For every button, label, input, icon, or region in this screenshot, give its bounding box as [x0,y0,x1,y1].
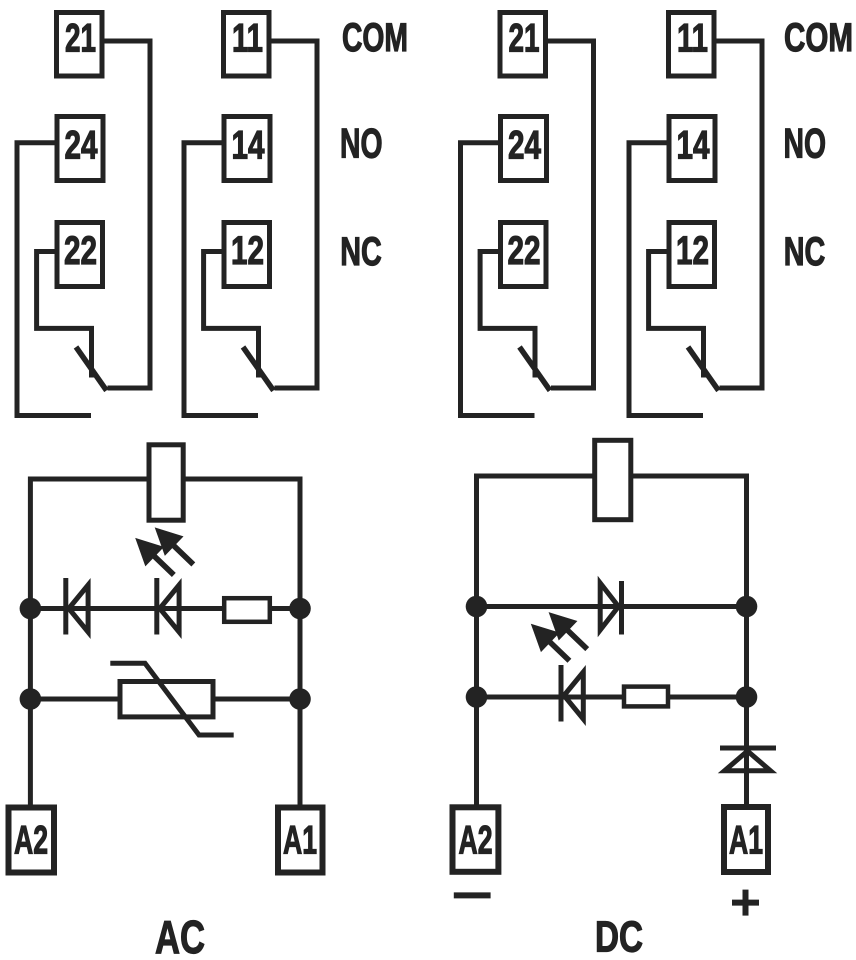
wire from 11 (COM) to switch blade [717,41,763,388]
terminal box 22 [501,223,547,287]
resistor R1 (AC) [224,598,270,622]
svg-text:21: 21 [509,16,540,60]
svg-text:A2: A2 [459,819,493,863]
wire from 12 (NC) to closed contact [204,252,259,378]
junction dot DC row1 right [736,596,758,618]
terminal box 14 [669,117,715,181]
svg-text:21: 21 [65,16,96,60]
junction dot AC row2 left [20,688,42,710]
diode D5 (DC reverse-polarity, pointing up) bar [720,746,776,751]
svg-text:14: 14 [232,124,266,168]
wire from 12 (NC) to closed contact [649,252,704,378]
switch blade (changeover contact) [520,347,551,391]
DC circuit outer wires (left vertical, top, right vertical) [477,476,747,807]
LED emission arrows (DC) [539,602,596,659]
wire row 1 (AC diode/LED/resistor branch) [30,606,300,611]
AC circuit outer wires (left vertical, top, right vertical) [30,479,300,807]
junction dot DC row2 right [736,686,758,708]
LED D4 (DC) [559,665,564,722]
relay coil (AC) [149,445,183,520]
wire from 24 (NO) to open contact [17,143,91,416]
varistor RV1 (AC) diagonal stroke [110,663,233,735]
svg-text:NO: NO [340,120,383,167]
terminal box 24 [501,117,547,181]
terminal box A1 (AC) [278,808,323,873]
svg-text:24: 24 [65,124,99,168]
diode D3 (DC, pointing right) [619,581,624,635]
wire from 14 (NO) to open contact [629,143,703,416]
svg-text:NO: NO [784,120,827,167]
junction dot AC row2 right [289,688,311,710]
minus polarity mark [454,892,491,898]
wire from 21 (COM) to switch blade [105,41,151,388]
terminal box 11 [669,13,715,77]
terminal box 21 [500,13,546,77]
diode D1 (AC) [63,578,68,635]
svg-text:14: 14 [677,124,711,168]
svg-text:22: 22 [508,229,541,273]
svg-text:12: 12 [231,229,264,273]
LED D2 (AC) [154,578,159,635]
terminal box A1 (DC) [724,807,768,872]
relay coil (DC) [595,440,631,519]
terminal box 14 [224,117,270,181]
terminal box 12 [669,223,715,287]
wire row 1 (DC diode branch) [477,604,747,609]
svg-text:24: 24 [508,124,542,168]
diode D5 triangle [725,751,771,771]
wire from 22 (NC) to closed contact [480,252,535,378]
svg-text:A2: A2 [14,819,48,863]
junction dot AC row1 left [20,598,42,620]
switch blade (changeover contact) [243,347,274,391]
junction dot DC row2 left [466,686,488,708]
svg-text:11: 11 [677,16,708,60]
wire row 2 (DC LED/resistor branch) [477,695,747,700]
svg-text:A1: A1 [729,819,763,863]
switch blade (changeover contact) [688,347,719,391]
wire from 24 (NO) to open contact [461,143,535,416]
LED emission arrows (AC) [145,518,202,575]
svg-text:COM: COM [784,16,853,60]
terminal box 11 [224,13,270,77]
svg-text:12: 12 [676,229,709,273]
terminal box 21 [57,13,103,77]
wire from 11 (COM) to switch blade [272,41,318,388]
switch blade (changeover contact) [76,347,107,391]
junction dot AC row1 right [289,598,311,620]
resistor R2 (DC) [624,687,668,707]
wire row 2 (AC varistor branch) [30,697,300,702]
terminal box 12 [224,223,270,287]
wire from 14 (NO) to open contact [184,143,258,416]
svg-text:NC: NC [340,230,382,274]
terminal box 24 [57,117,103,181]
wire from 22 (NC) to closed contact [37,252,92,378]
plus polarity mark [732,890,759,916]
varistor RV1 (AC) body [120,682,213,717]
terminal box 22 [57,223,103,287]
svg-text:AC: AC [155,911,205,960]
svg-text:NC: NC [784,230,826,274]
svg-text:22: 22 [64,229,97,273]
svg-text:11: 11 [232,16,263,60]
svg-text:A1: A1 [283,819,317,863]
terminal box A2 (DC) [453,807,499,872]
wire from 21 (COM) to switch blade [548,41,594,388]
svg-text:DC: DC [595,914,643,960]
terminal box A2 (AC) [9,808,55,873]
junction dot DC row1 left [466,596,488,618]
svg-text:COM: COM [342,16,408,60]
